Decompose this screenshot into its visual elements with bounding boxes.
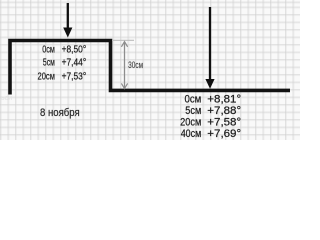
svg-text:+8,81°: +8,81° (207, 94, 241, 106)
svg-text:40см: 40см (181, 128, 202, 140)
svg-text:+7,69°: +7,69° (207, 128, 241, 140)
svg-text:5см: 5см (43, 58, 55, 69)
svg-text:+8,50°: +8,50° (62, 44, 87, 55)
svg-text:0см: 0см (42, 44, 55, 55)
svg-text:ьси: ьси (1, 95, 12, 102)
svg-text:5см: 5см (185, 105, 201, 117)
svg-text:20см: 20см (180, 117, 201, 129)
svg-text:+7,44°: +7,44° (62, 58, 87, 69)
svg-text:+7,53°: +7,53° (62, 71, 87, 82)
svg-text:+7,58°: +7,58° (207, 117, 241, 129)
svg-text:8 ноября: 8 ноября (40, 107, 80, 119)
svg-text:+7,88°: +7,88° (207, 105, 241, 117)
svg-text:0см: 0см (185, 94, 202, 106)
svg-text:20см: 20см (38, 71, 56, 82)
svg-text:30см: 30см (128, 60, 143, 71)
